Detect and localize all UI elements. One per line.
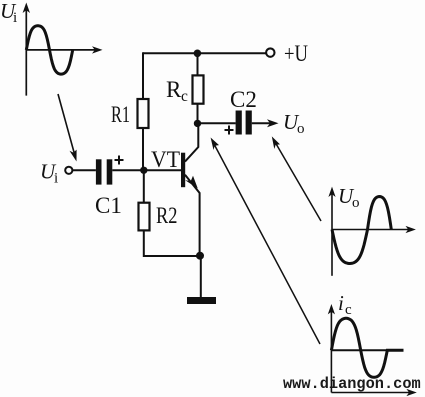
wire input terminal to C1 bbox=[72, 169, 96, 171]
terminal +U circle bbox=[266, 48, 274, 56]
svg-text:i: i bbox=[54, 171, 58, 187]
resistor R1 bbox=[138, 99, 149, 128]
output waveform vertical axis bbox=[328, 187, 335, 276]
output waveform horizontal axis bbox=[332, 226, 416, 233]
C1 polarity plus bbox=[115, 156, 124, 165]
svg-text:R: R bbox=[166, 77, 182, 102]
wire R2 bottom bbox=[144, 230, 201, 256]
svg-text:i: i bbox=[338, 291, 344, 315]
input terminal circle bbox=[65, 167, 72, 174]
ic waveform time axis bbox=[331, 389, 416, 396]
input waveform horizontal axis bbox=[26, 46, 102, 53]
svg-text:o: o bbox=[297, 121, 305, 137]
wire Rc to collector node bbox=[197, 104, 199, 124]
resistor Rc bbox=[193, 75, 204, 103]
arrow from input waveform to input terminal bbox=[58, 94, 77, 162]
transistor base wire bbox=[144, 169, 181, 171]
capacitor C2 bbox=[236, 111, 252, 135]
wire R1 branch top (rail to R1) bbox=[142, 52, 144, 99]
svg-text:R2: R2 bbox=[156, 203, 178, 228]
ic zero bias line bbox=[331, 349, 403, 351]
ic waveform vertical axis bbox=[328, 304, 335, 393]
output arrow wire bbox=[252, 119, 279, 127]
svg-text:c: c bbox=[181, 88, 188, 105]
svg-text:VT: VT bbox=[151, 147, 180, 172]
svg-text:o: o bbox=[352, 195, 360, 211]
wire emitter node to ground bbox=[200, 256, 202, 297]
node base junction dot bbox=[140, 167, 147, 174]
ground bbox=[187, 297, 216, 304]
node rail junction dot bbox=[194, 50, 202, 58]
input waveform vertical axis bbox=[23, 3, 30, 96]
wire C1 to base node bbox=[112, 169, 144, 171]
node collector junction dot bbox=[194, 120, 201, 127]
ic sine wave with bias line bbox=[331, 318, 403, 377]
svg-text:i: i bbox=[13, 10, 17, 26]
node emitter junction dot bbox=[196, 252, 204, 260]
top supply rail wire bbox=[143, 52, 266, 54]
svg-text:C1: C1 bbox=[95, 193, 122, 218]
wire R1 to base node bbox=[142, 128, 144, 170]
resistor R2 bbox=[139, 203, 150, 231]
transistor emitter arrowhead bbox=[185, 176, 198, 189]
C2 polarity plus bbox=[225, 126, 234, 135]
arrow from Uo waveform to output bbox=[272, 136, 321, 221]
capacitor C1 bbox=[96, 159, 112, 184]
wire base node to R2 bbox=[143, 170, 145, 202]
input sine wave Ui bbox=[26, 26, 72, 74]
output sine wave Uo bbox=[332, 197, 391, 264]
transistor emitter lead bbox=[185, 175, 200, 256]
svg-text:c: c bbox=[345, 302, 352, 318]
svg-text:www.diangon.com: www.diangon.com bbox=[283, 375, 421, 393]
svg-text:R1: R1 bbox=[111, 102, 130, 127]
arrow from ic waveform to collector current path bbox=[211, 138, 320, 345]
transistor VT base bar bbox=[181, 153, 185, 188]
svg-text:C2: C2 bbox=[230, 87, 257, 112]
wire rail to Rc bbox=[197, 53, 199, 75]
wire collector node to C2 bbox=[198, 122, 236, 124]
svg-text:+U: +U bbox=[284, 41, 308, 66]
transistor collector lead bbox=[185, 123, 198, 161]
